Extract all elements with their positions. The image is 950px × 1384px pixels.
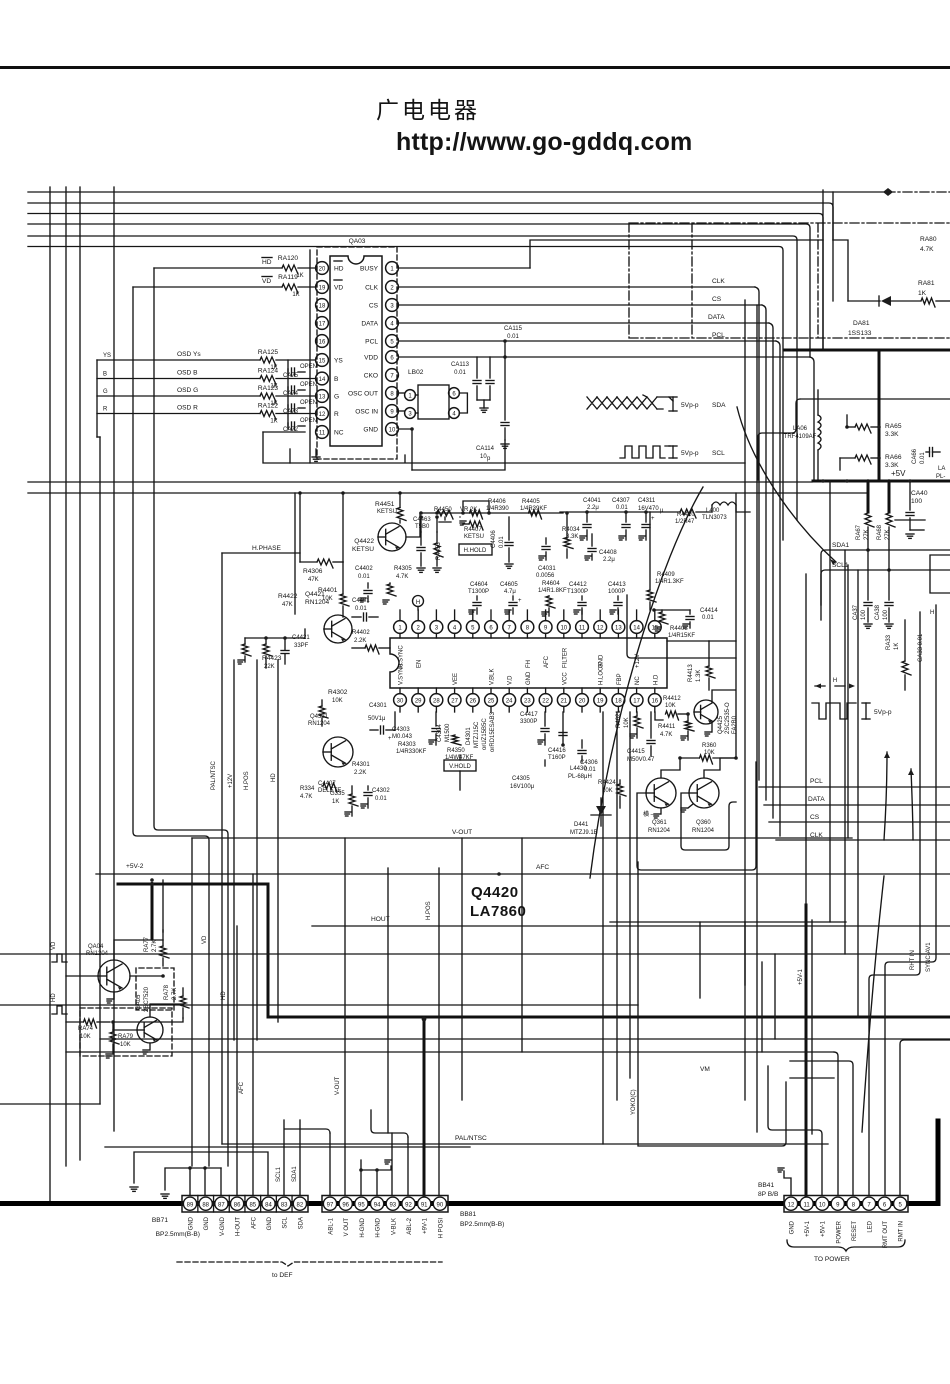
svg-text:RA68: RA68 xyxy=(877,524,883,540)
ic LA7860 pin 17 xyxy=(630,676,643,712)
brace TO POWER xyxy=(787,1240,905,1263)
resistor R4306 47K xyxy=(303,559,333,583)
signal label VD rot xyxy=(202,935,208,944)
waveform SCL xyxy=(620,446,725,458)
svg-text:http://www.go-gddq.com: http://www.go-gddq.com xyxy=(396,128,692,156)
svg-text:87: 87 xyxy=(218,1202,225,1208)
svg-text:VD: VD xyxy=(51,941,57,950)
capacitor CA40 100 xyxy=(895,481,928,538)
capacitor CA33 0.01 xyxy=(918,633,924,662)
connector BB41 pin label LED xyxy=(868,1220,874,1232)
svg-text:0.01: 0.01 xyxy=(454,370,466,376)
svg-text:RA125: RA125 xyxy=(258,349,278,356)
svg-text:CLK: CLK xyxy=(712,278,725,285)
wire BB71 feeds xyxy=(130,1120,300,1198)
signal label HD2 rot xyxy=(271,773,277,782)
wire bus top line 4 xyxy=(28,224,810,357)
svg-text:RN1204: RN1204 xyxy=(648,828,671,834)
wire BB41 staircase xyxy=(768,1040,950,1195)
resistor R4422 47K xyxy=(278,593,298,608)
svg-text:91: 91 xyxy=(421,1202,428,1208)
capacitor C4417 3300P xyxy=(520,712,549,745)
label LA7860 bold xyxy=(470,903,526,920)
wire y1005 xyxy=(0,1004,638,1006)
connector BB41 pin label RMT OUT xyxy=(883,1221,889,1249)
svg-text:10K: 10K xyxy=(624,717,630,728)
connector BB41 pin label +5V-1 xyxy=(805,1220,811,1237)
signal label OSD B xyxy=(103,370,198,378)
svg-text:0.01: 0.01 xyxy=(499,536,505,548)
svg-text:MTZJ9.1B: MTZJ9.1B xyxy=(570,830,598,836)
wire x847 vertical xyxy=(840,415,847,470)
signal SDA1 line xyxy=(821,542,950,605)
svg-text:1/4R1.3KF: 1/4R1.3KF xyxy=(655,579,684,585)
potentiometer R4450 VR 2K xyxy=(434,507,477,522)
resistor R4350 1/4W47KF xyxy=(445,735,474,761)
wire bus top line 6 xyxy=(28,247,783,541)
wire x300 vertical xyxy=(300,493,343,562)
wire curve B xyxy=(590,487,703,878)
svg-text:1K: 1K xyxy=(894,643,900,650)
svg-text:2SC2535-O: 2SC2535-O xyxy=(725,702,731,734)
label VM xyxy=(700,1066,710,1073)
svg-text:1SS133: 1SS133 xyxy=(848,330,872,337)
svg-text:14: 14 xyxy=(319,377,326,383)
ic LA7860 pin 8 xyxy=(521,610,534,668)
svg-text:+5V-1: +5V-1 xyxy=(821,1220,827,1237)
svg-text:RA77: RA77 xyxy=(144,936,150,952)
svg-text:C4311: C4311 xyxy=(638,498,656,504)
inductor LA06 TRF4109AF xyxy=(784,390,821,481)
resistor RA80 4.7K xyxy=(920,236,937,253)
svg-text:3.3K: 3.3K xyxy=(885,431,899,438)
ic QA03 pin 19 VD xyxy=(316,281,344,294)
capacitor C4402 0.01 xyxy=(355,566,373,602)
svg-text:CS: CS xyxy=(369,302,379,309)
svg-text:RN1204: RN1204 xyxy=(692,828,715,834)
capacitor CA113b xyxy=(477,357,494,412)
svg-text:C4304: C4304 xyxy=(437,724,443,742)
svg-text:OPEN: OPEN xyxy=(300,364,317,370)
resistor R4423 22K xyxy=(238,638,282,670)
svg-text:2.2μ: 2.2μ xyxy=(587,505,599,511)
svg-text:M50V0.47: M50V0.47 xyxy=(627,757,655,763)
resistor R334 4.7K xyxy=(300,783,337,800)
svg-text:NC: NC xyxy=(635,676,641,685)
svg-text:RA66: RA66 xyxy=(885,454,902,461)
ic LA7860 pin 1 xyxy=(394,610,407,668)
resistor RA65 3.3K xyxy=(845,423,902,438)
svg-text:VDD: VDD xyxy=(364,354,378,361)
svg-text:OSD G: OSD G xyxy=(177,387,198,394)
svg-text:V-GND: V-GND xyxy=(220,1216,226,1236)
wire right verticals long xyxy=(603,300,858,1144)
connector BB41 pin label POWER xyxy=(836,1220,842,1243)
svg-text:KETSU: KETSU xyxy=(352,546,374,553)
svg-text:RA74: RA74 xyxy=(78,1026,94,1032)
connector BB71 pin label GND xyxy=(267,1216,273,1230)
svg-text:FBP: FBP xyxy=(617,673,623,685)
signal label VD xyxy=(262,277,272,286)
signal label H.POS rot xyxy=(244,771,250,790)
capacitor C4463 T5B0 xyxy=(413,517,431,572)
connector BB81 pin label ABL-2 xyxy=(407,1217,413,1234)
svg-text:H-GND: H-GND xyxy=(376,1217,382,1237)
signal DATA right xyxy=(764,796,950,805)
svg-text:Q4422: Q4422 xyxy=(354,538,374,545)
svg-text:2.2K: 2.2K xyxy=(354,770,366,776)
resistor R4303 1/4R330KF xyxy=(396,742,427,755)
svg-text:M0.043: M0.043 xyxy=(392,734,413,740)
svg-text:92: 92 xyxy=(405,1202,412,1208)
svg-text:Q4420: Q4420 xyxy=(471,884,519,901)
connector BB81 pin label V OUT xyxy=(344,1218,350,1237)
svg-text:1K: 1K xyxy=(918,290,927,297)
capacitor C4307 0.01 xyxy=(612,498,630,540)
svg-text:B: B xyxy=(103,372,107,378)
connector BB81 pin label +9V-1 xyxy=(423,1217,429,1234)
svg-text:10K: 10K xyxy=(120,1042,131,1048)
svg-text:G: G xyxy=(103,389,108,395)
resistor R4301 2.2K xyxy=(352,762,370,776)
svg-text:CA115: CA115 xyxy=(504,326,523,332)
svg-text:13: 13 xyxy=(615,625,622,631)
wire bus top line 5 xyxy=(28,236,797,520)
wire VD drop xyxy=(133,287,209,1166)
wire y1052 xyxy=(66,1052,838,1195)
wire CLK line xyxy=(398,278,759,780)
ic QA03 pin 3 CS xyxy=(369,299,399,312)
svg-text:27K: 27K xyxy=(885,529,891,540)
wire curve arrows right xyxy=(862,752,914,1132)
svg-text:V.D: V.D xyxy=(508,675,514,685)
svg-text:29: 29 xyxy=(415,698,422,704)
svg-text:100: 100 xyxy=(911,498,922,505)
ic LA7860 pin 21 xyxy=(557,672,570,712)
connector BB81 pin label ABL-1 xyxy=(329,1217,335,1234)
capacitor C4421 33PF xyxy=(281,635,310,664)
svg-text:PAL/NTSC: PAL/NTSC xyxy=(211,760,217,790)
svg-text:DELETE: DELETE xyxy=(318,788,341,794)
svg-text:C4031: C4031 xyxy=(538,566,556,572)
connector BB81 pin label V-BLK xyxy=(391,1218,397,1235)
capacitor C4416 T160P xyxy=(545,748,566,766)
svg-text:R4412: R4412 xyxy=(663,696,681,702)
wire OSD left bracket xyxy=(97,360,100,437)
ic QA03 pin 11 NC xyxy=(316,426,344,439)
box label H.HOLD xyxy=(459,544,492,555)
svg-text:R4451: R4451 xyxy=(375,501,395,508)
ic QA03 pin 9 OSC IN xyxy=(355,405,398,418)
svg-text:VD: VD xyxy=(202,935,208,944)
svg-text:RA122: RA122 xyxy=(258,403,278,410)
svg-text:1000P: 1000P xyxy=(608,589,625,595)
ic QA03 body xyxy=(330,238,382,446)
wire Q361 base loop xyxy=(637,762,756,870)
ic LA7860 pin 24 xyxy=(503,675,516,712)
svg-text:R4424: R4424 xyxy=(598,780,616,786)
svg-text:PAL/NTSC: PAL/NTSC xyxy=(455,1135,487,1142)
svg-text:4.7K: 4.7K xyxy=(300,794,312,800)
svg-text:16: 16 xyxy=(651,698,658,704)
transistor GA05 2SC7520 xyxy=(136,986,163,1054)
ic LA7860 pin 2 xyxy=(412,610,425,668)
svg-text:VM: VM xyxy=(700,1066,710,1073)
ic LA7860 pin 9 xyxy=(539,610,552,668)
wire QA04 nets xyxy=(66,878,165,978)
svg-text:27: 27 xyxy=(451,698,458,704)
svg-text:C4041: C4041 xyxy=(583,498,601,504)
svg-text:4.7μ: 4.7μ xyxy=(504,589,516,595)
svg-text:3.3K: 3.3K xyxy=(885,462,899,469)
svg-text:R334: R334 xyxy=(300,786,315,792)
svg-text:C4413: C4413 xyxy=(608,582,626,588)
svg-text:30: 30 xyxy=(397,698,404,704)
signal label OSD G xyxy=(103,387,198,395)
svg-text:ABL-1: ABL-1 xyxy=(329,1217,335,1234)
ic LA7860 pin 27 xyxy=(448,673,461,712)
ic LA7860 pin 3 xyxy=(430,610,443,638)
svg-text:17: 17 xyxy=(319,321,326,327)
svg-text:1K: 1K xyxy=(292,292,299,298)
connector BB71 pin label V-GND xyxy=(220,1216,226,1236)
svg-text:OSD R: OSD R xyxy=(177,405,198,412)
svg-text:Q361: Q361 xyxy=(652,820,667,826)
svg-text:12: 12 xyxy=(319,412,326,418)
svg-text:BB81: BB81 xyxy=(460,1211,476,1218)
ic QA03 pin 17 xyxy=(316,317,329,330)
resistor RA33 1K xyxy=(886,620,911,690)
diode D441 MTZJ9.1B xyxy=(570,798,611,836)
ic LA7860 pin 10 xyxy=(557,610,570,668)
svg-text:27K: 27K xyxy=(864,529,870,540)
svg-text:12: 12 xyxy=(788,1202,795,1208)
svg-text:R4305: R4305 xyxy=(394,566,412,572)
ic QA03 pin 7 CKO xyxy=(364,369,399,382)
svg-text:GND: GND xyxy=(267,1216,273,1230)
svg-text:C4604: C4604 xyxy=(470,582,488,588)
svg-text:KETSU: KETSU xyxy=(464,534,484,540)
svg-text:R4407: R4407 xyxy=(464,527,482,533)
wire y954 long xyxy=(0,953,950,955)
svg-text:R4409: R4409 xyxy=(657,572,675,578)
ic LA7860 pin 26 xyxy=(466,688,479,712)
resistor R4402 2.2K xyxy=(352,630,390,654)
resistor R4305 4.7K xyxy=(383,566,412,604)
svg-text:RA80: RA80 xyxy=(920,236,937,243)
capacitor CA66 0.01 xyxy=(912,448,940,465)
wire bus top line 2 xyxy=(28,203,833,301)
svg-text:83: 83 xyxy=(281,1202,288,1208)
svg-text:AFC: AFC xyxy=(251,1216,257,1229)
capacitor CA114 10p xyxy=(476,357,509,462)
svg-text:H: H xyxy=(416,600,420,606)
resistor RA68 27K xyxy=(877,481,895,572)
ic QA03 pin 20 HD xyxy=(316,262,344,275)
resistor R4302 10K xyxy=(319,689,348,726)
resistor R4405 1/4R39KF xyxy=(520,499,547,519)
ic LA7860 pin 4 xyxy=(448,610,461,638)
svg-text:R4306: R4306 xyxy=(303,568,323,575)
capacitor C4407 DELETE xyxy=(318,781,341,794)
resistor R4409 1/4R1.3KF xyxy=(647,512,684,610)
svg-text:11: 11 xyxy=(579,625,586,631)
cap C4420 net xyxy=(559,712,567,747)
waveform +H xyxy=(812,678,892,719)
svg-text:CKO: CKO xyxy=(364,372,378,379)
svg-text:10K: 10K xyxy=(332,698,343,704)
wire HD to pin20 xyxy=(154,267,316,269)
svg-text:12: 12 xyxy=(597,625,604,631)
svg-text:BB41: BB41 xyxy=(758,1182,774,1189)
inductor L400 TLN3073 xyxy=(696,502,750,521)
svg-text:PCL: PCL xyxy=(365,338,378,345)
ic QA03 pin 1 BUSY xyxy=(360,262,398,275)
wire Q360 base loop xyxy=(681,793,736,850)
svg-text:2.2K: 2.2K xyxy=(354,638,366,644)
capacitor CA113 0.01 xyxy=(451,357,481,400)
ic QA03 pin 8 OSC OUT xyxy=(348,387,398,400)
ic QA03 pin 16 xyxy=(316,335,329,348)
resistor G335 1K xyxy=(330,786,358,816)
svg-text:26: 26 xyxy=(469,698,476,704)
svg-text:16V100μ: 16V100μ xyxy=(510,784,535,790)
svg-text:84: 84 xyxy=(265,1202,272,1208)
transistor Q361 RN1204 xyxy=(643,778,676,834)
svg-text:C4307: C4307 xyxy=(612,498,630,504)
svg-text:RA123: RA123 xyxy=(258,385,278,392)
svg-text:RA78: RA78 xyxy=(164,984,170,1000)
label YOKO(C) rot xyxy=(631,1089,637,1115)
ic LA7860 pin 22 xyxy=(539,688,552,712)
capacitor CA115 0.01 xyxy=(503,326,522,359)
wire horizontals y482 y493 xyxy=(28,482,866,495)
capacitor CA37 100 xyxy=(853,550,872,628)
svg-text:HD: HD xyxy=(262,259,272,266)
connector BB41 pin label +5V-1 xyxy=(821,1220,827,1237)
node H circle xyxy=(413,596,424,611)
wire OSD R to pin xyxy=(97,413,316,415)
wire Q4422 collector net xyxy=(400,511,563,537)
svg-text:V.BLK: V.BLK xyxy=(490,669,496,685)
svg-text:YS: YS xyxy=(103,353,111,359)
wire mid verticals xyxy=(100,437,295,1144)
wire AFC xyxy=(96,864,950,876)
svg-text:4.7K: 4.7K xyxy=(660,732,672,738)
resistor RA74 10K xyxy=(66,1019,110,1040)
svg-text:47K: 47K xyxy=(282,602,293,608)
svg-text:23: 23 xyxy=(524,698,531,704)
svg-text:H-OUT: H-OUT xyxy=(236,1217,242,1236)
wire GA05 nets xyxy=(113,1004,183,1030)
wire CS line xyxy=(398,296,766,800)
svg-text:BUSY: BUSY xyxy=(360,265,379,272)
capacitor CA74 OPEN xyxy=(283,382,317,397)
svg-text:V-OUT: V-OUT xyxy=(452,829,472,836)
svg-text:SDA: SDA xyxy=(298,1217,304,1229)
svg-text:0.01: 0.01 xyxy=(507,334,519,340)
svg-text:SYNC-AV1: SYNC-AV1 xyxy=(926,942,932,972)
signal label HD rot xyxy=(221,991,227,1000)
transistor Q4425 2SC2535 xyxy=(694,700,738,734)
svg-text:to DEF: to DEF xyxy=(272,1272,293,1279)
svg-text:VD: VD xyxy=(262,278,271,285)
svg-text:50V1μ: 50V1μ xyxy=(368,716,386,722)
svg-text:5Vp-p: 5Vp-p xyxy=(874,709,892,716)
dashed box GA05 xyxy=(80,1008,172,1056)
svg-text:B: B xyxy=(334,376,339,383)
svg-text:Q4321: Q4321 xyxy=(310,714,329,720)
svg-text:R4034: R4034 xyxy=(562,527,580,533)
capacitor CA75 OPEN xyxy=(283,364,317,379)
svg-text:TO POWER: TO POWER xyxy=(814,1256,850,1263)
svg-text:0.01: 0.01 xyxy=(920,452,926,464)
svg-text:4.7K: 4.7K xyxy=(920,246,934,253)
capacitor CA72 OPEN xyxy=(283,418,317,433)
svg-text:T160P: T160P xyxy=(548,755,566,761)
svg-text:T1300P: T1300P xyxy=(567,589,588,595)
svg-text:C4412: C4412 xyxy=(569,582,587,588)
transistor Q4321 RN1204 xyxy=(308,714,353,767)
svg-text:YS: YS xyxy=(334,357,343,364)
label H.PHASE xyxy=(252,545,282,552)
ic QA03 pin 5 PCL xyxy=(365,335,398,348)
svg-text:20: 20 xyxy=(579,698,586,704)
svg-text:GND: GND xyxy=(790,1220,796,1234)
transistor Q4422 KETSU xyxy=(352,523,406,553)
svg-text:DATA: DATA xyxy=(361,320,378,327)
svg-text:OSC OUT: OSC OUT xyxy=(348,390,378,397)
header chinese text 广电电器 xyxy=(376,98,480,123)
wire yoko box xyxy=(638,862,812,1146)
capacitor C4304 M1500 xyxy=(429,712,451,745)
waveform SDA xyxy=(587,395,726,411)
capacitor C4302 0.01 xyxy=(361,786,390,808)
svg-text:18: 18 xyxy=(615,698,622,704)
label SYNC-AV1 rot xyxy=(885,605,936,1195)
svg-text:24: 24 xyxy=(506,698,513,704)
svg-text:10: 10 xyxy=(560,625,567,631)
svg-text:HD: HD xyxy=(51,993,57,1002)
svg-text:D4301: D4301 xyxy=(466,727,472,745)
wire +5v-2 rail xyxy=(0,0,1,1)
resistor R4034 3.3K xyxy=(562,511,580,558)
svg-text:Q4421: Q4421 xyxy=(305,591,325,598)
svg-text:R360: R360 xyxy=(702,743,717,749)
svg-text:1K: 1K xyxy=(332,799,339,805)
svg-text:NC: NC xyxy=(334,429,344,436)
resistor R4407 KETSU xyxy=(460,521,484,540)
svg-text:PL-: PL- xyxy=(936,474,945,480)
svg-text:D441: D441 xyxy=(574,822,589,828)
signal CLK right xyxy=(776,832,950,840)
resistor RA125 1K xyxy=(258,349,278,371)
resistor RA119 1K xyxy=(278,274,300,298)
svg-text:+5V-1: +5V-1 xyxy=(805,1220,811,1237)
svg-text:1/4R15KF: 1/4R15KF xyxy=(668,633,695,639)
connector BB81 pin label H POSI xyxy=(438,1218,444,1239)
svg-text:88: 88 xyxy=(202,1202,209,1208)
svg-text:SDA1: SDA1 xyxy=(292,1166,298,1182)
wire QA03 outer left vertical xyxy=(309,250,311,463)
page top rule xyxy=(0,66,950,69)
capacitor C4301 50V1u xyxy=(368,703,395,742)
wire BB41 pin12 ground xyxy=(778,1168,791,1195)
svg-text:100: 100 xyxy=(861,609,867,620)
svg-text:17: 17 xyxy=(633,698,640,704)
wire left vertical 1 xyxy=(49,187,51,1202)
power +5V rail xyxy=(813,469,950,483)
